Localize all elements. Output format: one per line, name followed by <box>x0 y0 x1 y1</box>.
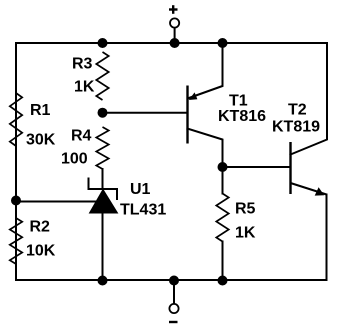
wire bottom terminal lead <box>173 280 175 303</box>
U1 anode triangle <box>90 190 118 214</box>
svg-text:R2: R2 <box>30 219 51 236</box>
transistor T2 KT819 (NPN) <box>291 142 327 196</box>
T1 emitter arrow <box>189 92 198 100</box>
T2 base bar <box>289 142 291 194</box>
resistor R2 <box>10 218 22 264</box>
node dot divider R1/R2/ref <box>11 196 21 206</box>
node dot bottom terminal junction <box>169 276 179 286</box>
node dot U1 anode at bottom rail <box>98 276 108 286</box>
svg-text:1K: 1K <box>235 225 256 242</box>
wire U1 ref from divider node <box>16 201 97 203</box>
resistor R5 <box>216 194 228 242</box>
node dot R5 bottom at bottom rail <box>218 276 228 286</box>
T2 emitter lead with arrow <box>291 183 327 195</box>
T1 base bar <box>186 86 188 144</box>
svg-text:KT816: KT816 <box>218 108 266 125</box>
svg-text:R5: R5 <box>235 201 256 218</box>
wire right rail upper (T2 collector to top rail) <box>291 43 328 155</box>
wire top rail <box>16 42 327 44</box>
T1 emitter lead to top rail <box>188 43 223 99</box>
resistor R3 <box>96 52 108 100</box>
top terminal circle <box>170 18 179 27</box>
svg-text:R3: R3 <box>72 56 93 73</box>
node dot T1 emitter at top rail <box>218 38 228 48</box>
wire U1 anode lead <box>102 213 104 280</box>
node dot R3/R4/T1 base <box>98 108 108 118</box>
resistor R1 <box>10 93 22 146</box>
svg-text:100: 100 <box>61 151 88 168</box>
svg-text:TL431: TL431 <box>120 202 166 219</box>
wire R5 top lead <box>222 167 224 194</box>
T2 emitter arrow <box>315 187 325 195</box>
wire top terminal lead <box>174 29 176 44</box>
svg-text:T1: T1 <box>229 93 248 110</box>
bottom terminal minus sign <box>169 321 178 323</box>
top terminal plus sign <box>169 5 178 14</box>
bottom terminal circle <box>169 304 178 313</box>
wire right rail lower (T2 emitter to bottom rail) <box>326 195 328 281</box>
svg-text:R4: R4 <box>71 128 92 145</box>
svg-text:10K: 10K <box>26 243 56 260</box>
transistor T1 KT816 (PNP) <box>188 43 223 144</box>
wire T1 collector to node with R5 and T2 base <box>188 129 223 167</box>
U1 cathode bar with bent ends <box>89 178 118 201</box>
wire left rail <box>15 43 17 280</box>
svg-text:T2: T2 <box>288 102 307 119</box>
svg-text:R1: R1 <box>30 102 51 119</box>
svg-text:30K: 30K <box>26 132 56 149</box>
svg-text:KT819: KT819 <box>272 119 320 136</box>
wire bottom rail <box>16 279 327 281</box>
node dot T1 collector / R5 / T2 base <box>218 162 228 172</box>
resistor R4 <box>96 127 108 169</box>
wire R5 bottom lead <box>222 242 224 281</box>
wire U1 cathode lead <box>102 169 104 189</box>
wire T1 base (node of R3 bottom / R4 top to T1) <box>103 112 187 114</box>
op-amp U1 TL431 shunt regulator <box>89 178 118 214</box>
node dot top of R3 <box>98 38 108 48</box>
node dot top terminal junction <box>170 38 180 48</box>
svg-text:U1: U1 <box>130 181 151 198</box>
svg-text:1K: 1K <box>74 79 95 96</box>
wire T2 base from R5 top node <box>223 166 290 168</box>
